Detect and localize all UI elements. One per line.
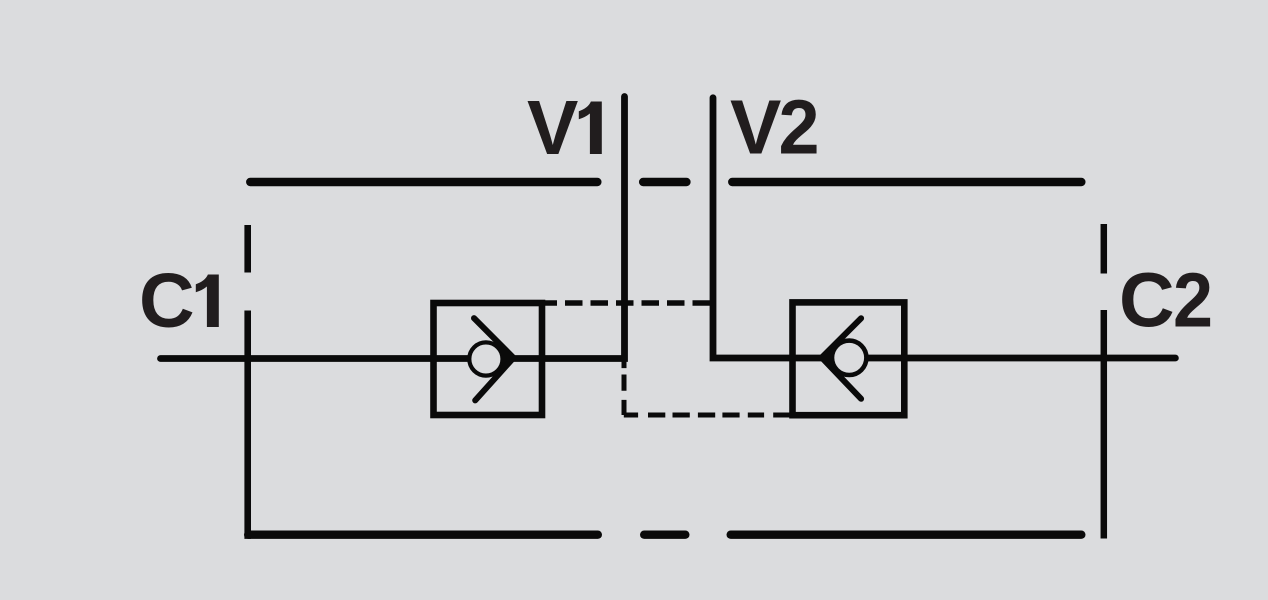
svg-text:C: C [1119, 258, 1175, 344]
wire: C1 main line with V1 riser [161, 97, 625, 359]
wire: C2 main line with V2 riser [713, 98, 1175, 358]
port label C1 [139, 258, 219, 344]
svg-text:C: C [139, 258, 195, 344]
check valve CV2 seat vertex wedge [822, 343, 837, 372]
check valve CV1 body [434, 303, 543, 415]
port label V2 [730, 85, 820, 171]
check valve CV2 ball [832, 341, 866, 375]
check valve CV2 seat [822, 318, 861, 399]
check valve CV1 ball [469, 342, 502, 375]
svg-text:V: V [730, 85, 781, 171]
enclosure boundary top (long-dash) [250, 178, 1081, 187]
port label C2 [1119, 258, 1213, 344]
svg-text:2: 2 [779, 85, 820, 171]
check valve CV2 body [793, 302, 905, 415]
check valve CV1 seat vertex wedge [499, 344, 514, 373]
svg-text:2: 2 [1173, 258, 1213, 344]
svg-text:V: V [527, 85, 578, 171]
pilot line from V1 line to CV2 bottom (dashed elbow) [624, 361, 793, 415]
enclosure boundary right (long-dash) [1101, 224, 1108, 539]
check valve CV1 seat [474, 318, 514, 400]
pilot line from CV1 top to V2 line (dashed) [540, 300, 714, 306]
port label V1 [527, 85, 602, 171]
enclosure boundary bottom (long-dash) [248, 531, 1081, 539]
enclosure boundary left (long-dash, joins bottom corner) [244, 225, 251, 539]
